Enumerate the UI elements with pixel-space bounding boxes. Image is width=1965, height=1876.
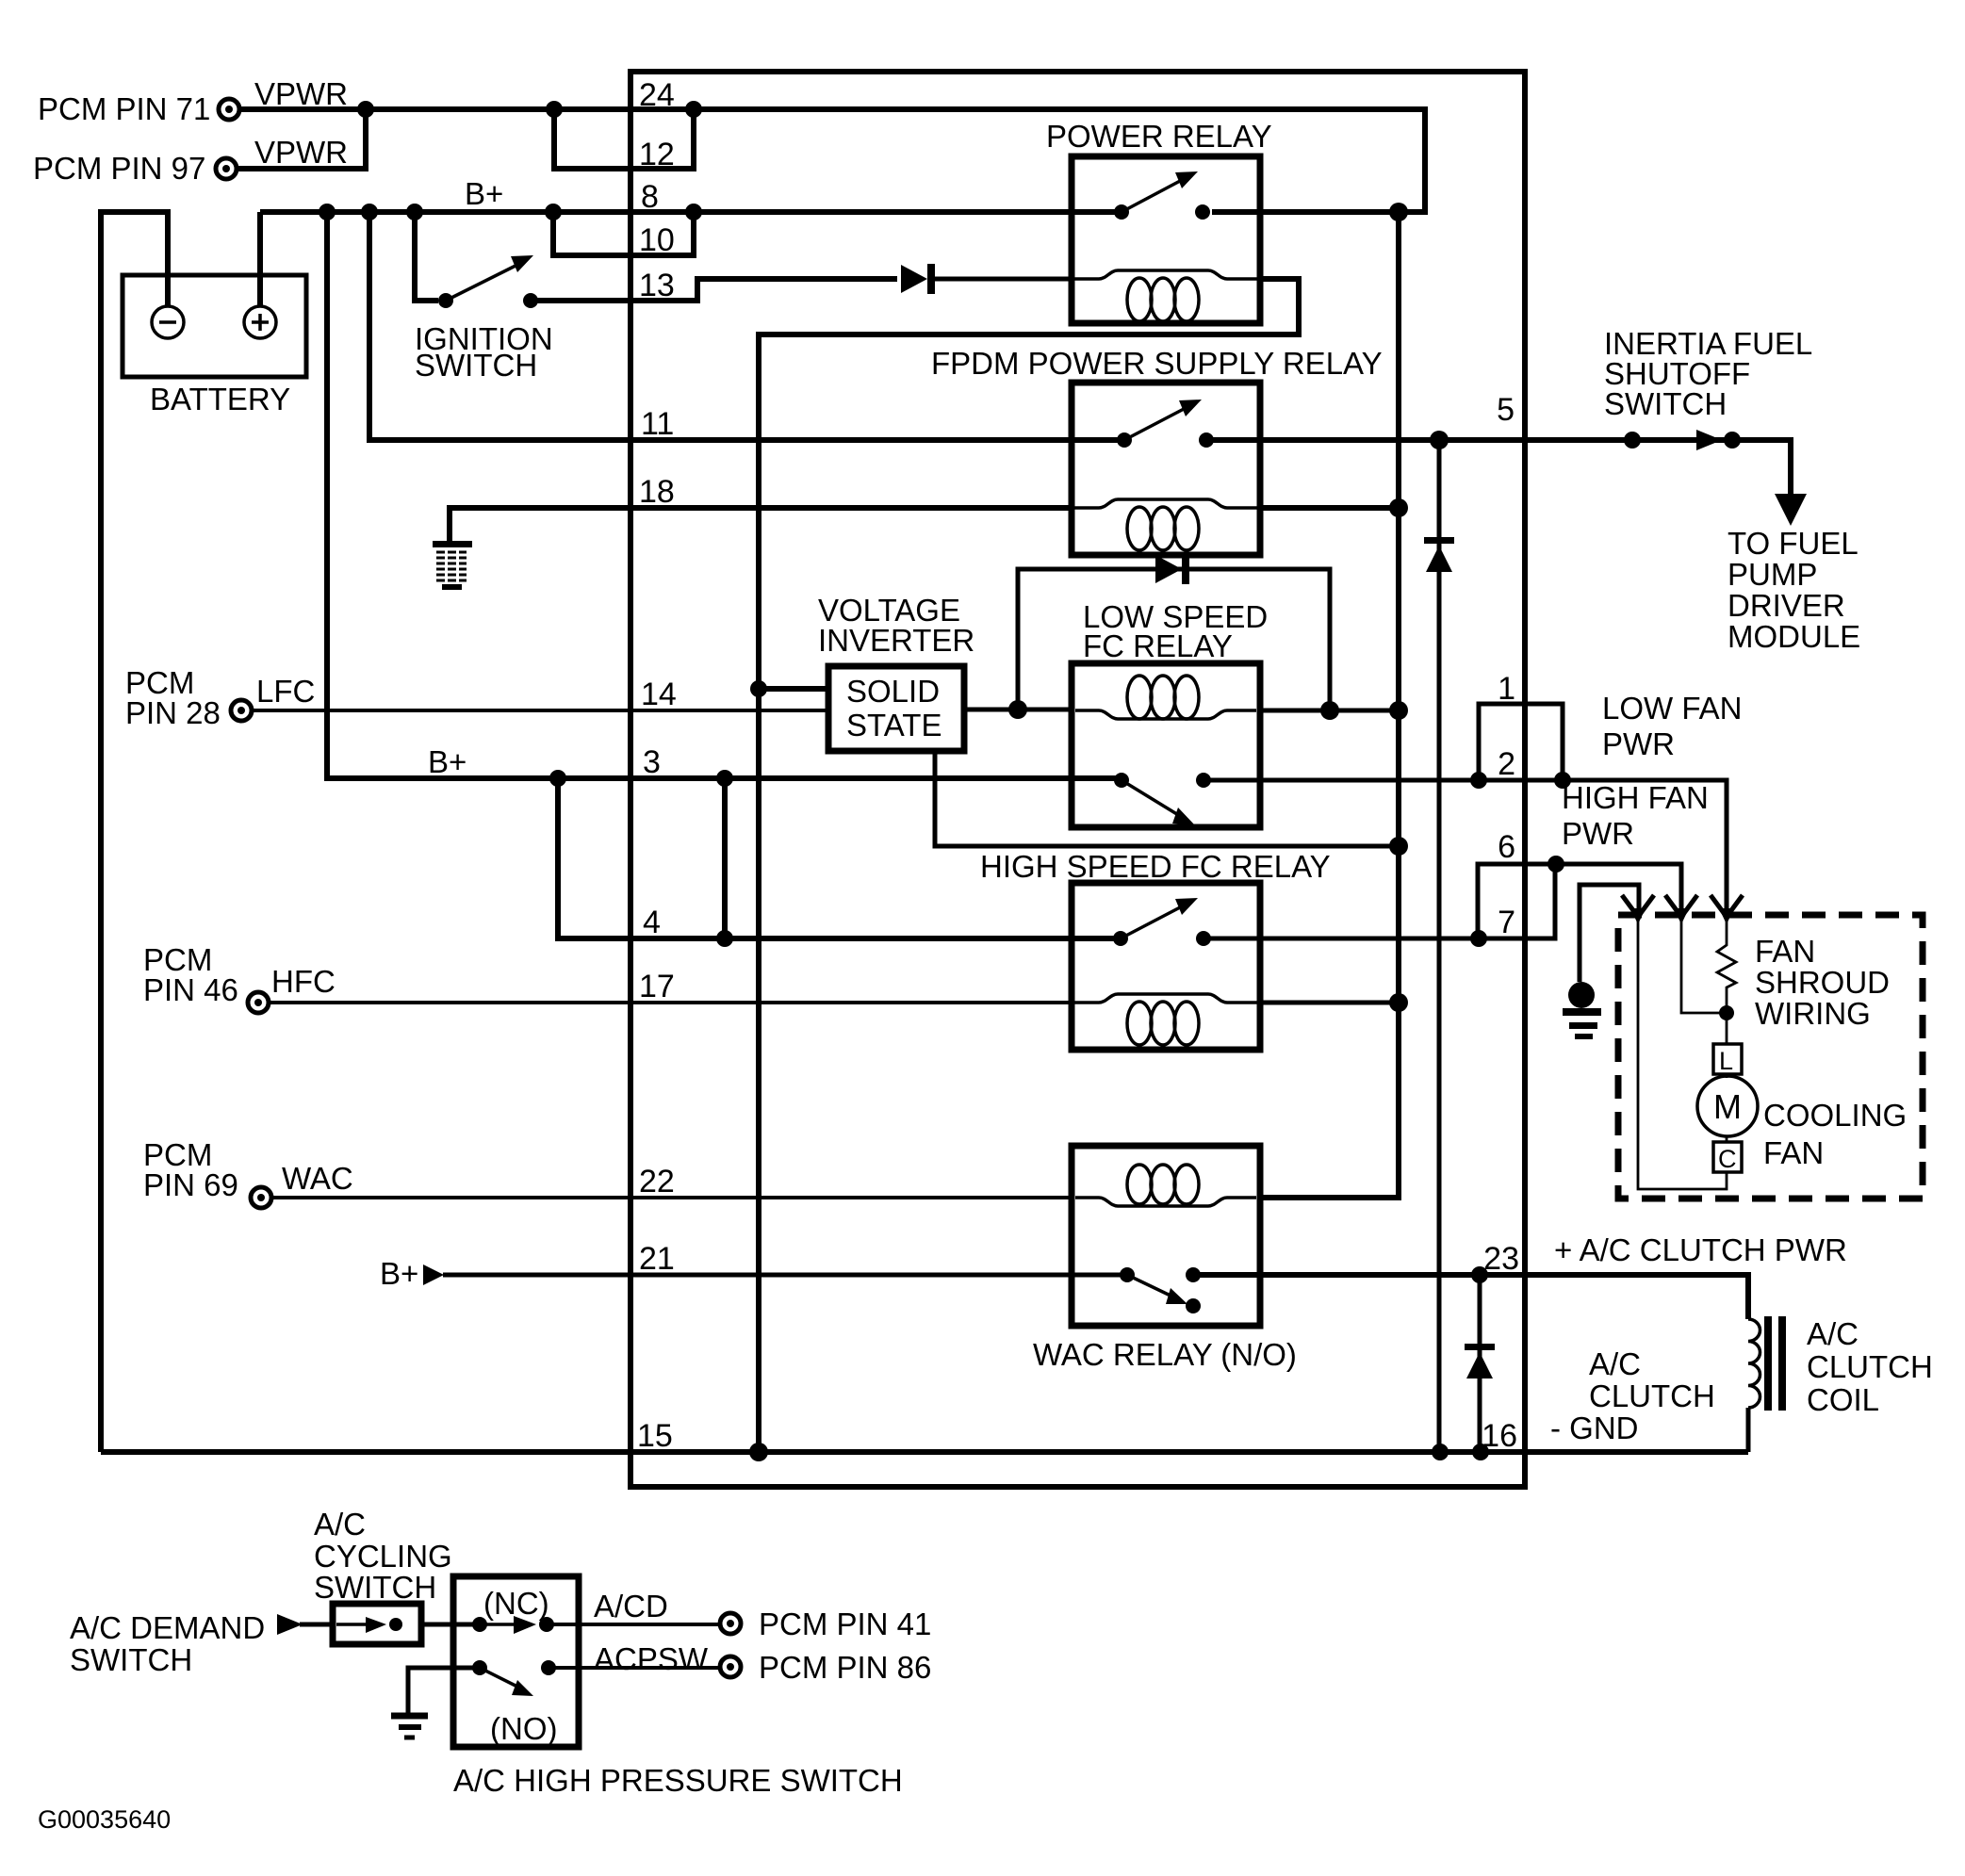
resistor: fan shroud dropping resistor: [1717, 920, 1736, 1010]
ground: hatched ground for wire 18: [433, 541, 472, 590]
wire: cycling switch to high pressure switch: [421, 1623, 480, 1627]
svg-text:17: 17: [639, 969, 675, 1004]
pin terminal PCM PIN 69: [251, 1187, 271, 1208]
arrow: B+ source for wire 21: [423, 1264, 444, 1285]
wire: A/C demand to cycling switch: [300, 1623, 333, 1627]
svg-text:FAN: FAN: [1763, 1135, 1824, 1170]
svg-text:(NO): (NO): [490, 1711, 557, 1746]
wire 22: WAC from PCM PIN 69 to WAC relay coil: [271, 1196, 1072, 1199]
svg-text:FC RELAY: FC RELAY: [1083, 628, 1233, 663]
svg-text:PCM PIN 41: PCM PIN 41: [759, 1607, 931, 1641]
relay: POWER RELAY: [1072, 156, 1260, 323]
svg-text:BATTERY: BATTERY: [150, 382, 290, 416]
svg-text:PIN 46: PIN 46: [143, 972, 238, 1007]
svg-text:CLUTCH: CLUTCH: [1589, 1378, 1715, 1413]
svg-text:11: 11: [641, 406, 674, 442]
svg-text:DRIVER: DRIVER: [1728, 588, 1845, 623]
svg-text:STATE: STATE: [846, 708, 942, 742]
node: bypass diode left junction: [1008, 700, 1027, 719]
wire: ACPSW to PCM PIN 86: [549, 1666, 720, 1670]
arrow: to fuel pump driver module: [1775, 494, 1807, 526]
svg-text:SWITCH: SWITCH: [415, 348, 537, 383]
svg-text:- GND: - GND: [1550, 1411, 1639, 1445]
svg-text:13: 13: [639, 268, 675, 303]
wire: solid state bottom feed to B+ bus: [935, 751, 1399, 846]
svg-text:WAC: WAC: [282, 1161, 353, 1196]
svg-text:A/C: A/C: [1589, 1346, 1641, 1381]
relay: HIGH SPEED FC RELAY: [1072, 883, 1260, 1050]
wire 8: B+ rail from battery to power relay: [260, 209, 1122, 215]
svg-text:HIGH FAN: HIGH FAN: [1562, 780, 1709, 815]
svg-text:PIN 28: PIN 28: [125, 695, 221, 730]
wire 3: B+ drop to low speed relay contact: [327, 212, 1122, 778]
diode: A/C clutch flyback: [1465, 1344, 1495, 1378]
wire 24: VPWR from PCM PIN 71 to power relay contact: [239, 109, 1425, 212]
svg-text:16: 16: [1482, 1418, 1517, 1454]
bottom section: A/C demand switch arrow: [277, 1614, 303, 1635]
relay: FPDM POWER SUPPLY RELAY: [1072, 383, 1260, 555]
svg-text:8: 8: [641, 179, 659, 215]
svg-text:A/CD: A/CD: [594, 1589, 668, 1623]
svg-text:POWER RELAY: POWER RELAY: [1046, 119, 1272, 154]
wire 23: WAC relay output to A/C clutch power: [1193, 1275, 1748, 1319]
pin terminal PCM PIN 97: [216, 158, 237, 179]
svg-text:7: 7: [1498, 905, 1515, 940]
svg-text:TO FUEL: TO FUEL: [1728, 526, 1859, 561]
wire 10: loop joining pin 10 to pin 8: [553, 212, 694, 255]
svg-text:22: 22: [639, 1164, 675, 1199]
wire 4: B+ branch to high speed relay contact: [558, 778, 1121, 938]
wire 18: FPDM coil to chassis ground: [450, 508, 1072, 542]
wire: FPDM coil return to B+ bus: [1260, 505, 1399, 511]
wire 6: pin 6 to high fan power: [1478, 864, 1681, 938]
svg-text:A/C: A/C: [1807, 1316, 1859, 1351]
ground: A/C high pressure switch ground: [391, 1716, 428, 1737]
svg-text:PIN 69: PIN 69: [143, 1167, 238, 1202]
svg-text:B+: B+: [465, 176, 503, 211]
node: junctions on B+ rail: [319, 204, 336, 220]
svg-text:LOW FAN: LOW FAN: [1602, 691, 1743, 726]
svg-text:SWITCH: SWITCH: [70, 1642, 192, 1677]
wire 5: FPDM output to inertia fuel shutoff switch: [1206, 440, 1791, 494]
svg-text:CLUTCH: CLUTCH: [1807, 1349, 1933, 1384]
svg-text:FAN: FAN: [1755, 934, 1815, 969]
svg-text:14: 14: [641, 677, 677, 712]
svg-text:1: 1: [1498, 671, 1515, 707]
wire: LS relay coil return to B+ bus: [1260, 709, 1399, 713]
svg-text:6: 6: [1498, 829, 1515, 865]
svg-text:PCM PIN 86: PCM PIN 86: [759, 1650, 931, 1685]
ignition switch: [438, 255, 538, 308]
wire 7: HS relay output to pin 7: [1206, 864, 1555, 938]
diode: on branch from wire 5: [1424, 537, 1454, 572]
pin terminal PCM PIN 41: [720, 1613, 741, 1634]
pin terminal PCM PIN 28: [231, 700, 252, 721]
wire: B+ drop to ignition switch: [415, 212, 438, 301]
relay: WAC RELAY (N/O): [1072, 1146, 1260, 1326]
wire: solid state feed stub from relay return line: [759, 686, 828, 692]
svg-text:HFC: HFC: [271, 964, 336, 999]
svg-text:12: 12: [639, 137, 675, 172]
svg-text:MODULE: MODULE: [1728, 619, 1860, 654]
svg-text:INVERTER: INVERTER: [818, 623, 974, 658]
svg-text:4: 4: [643, 905, 661, 940]
svg-text:PCM PIN 71: PCM PIN 71: [38, 91, 210, 126]
svg-text:PUMP: PUMP: [1728, 557, 1817, 592]
svg-text:PCM PIN 97: PCM PIN 97: [33, 151, 205, 186]
svg-text:5: 5: [1497, 392, 1515, 428]
fan shroud dashed box: [1618, 915, 1923, 1199]
wire: fan motor leads: [1638, 920, 1727, 1189]
pin terminal PCM PIN 46: [248, 992, 269, 1013]
wire: left ground rail from battery minus to pin 15 wire: [101, 212, 168, 1452]
svg-text:PWR: PWR: [1562, 816, 1634, 851]
svg-text:+ A/C CLUTCH PWR: + A/C CLUTCH PWR: [1554, 1232, 1847, 1267]
wire 1: loop joining pin 1 to pin 2: [1479, 704, 1563, 780]
svg-text:WAC RELAY (N/O): WAC RELAY (N/O): [1033, 1337, 1297, 1372]
wire: high fan feed inside shroud: [1681, 920, 1727, 1013]
svg-text:SWITCH: SWITCH: [314, 1570, 436, 1605]
wire 2: LS relay output to low fan power: [1206, 780, 1727, 916]
wire: HS relay coil return to B+ bus: [1260, 1001, 1399, 1005]
wire 15: ground wire along bottom to A/C clutch ground: [101, 1449, 1748, 1455]
diode: LS relay coil bypass: [1155, 554, 1189, 584]
svg-text:SWITCH: SWITCH: [1604, 386, 1727, 421]
svg-text:G00035640: G00035640: [38, 1805, 171, 1834]
svg-text:SHROUD: SHROUD: [1755, 965, 1890, 1000]
A/C cycling switch: [333, 1604, 421, 1644]
A/C high pressure switch: [453, 1576, 579, 1747]
connector box (PCM harness connector outline): [630, 72, 1525, 1487]
svg-text:(NC): (NC): [483, 1586, 549, 1621]
wire 17: HFC from PCM PIN 46 to HS relay coil: [269, 1001, 1072, 1004]
svg-text:23: 23: [1483, 1241, 1519, 1277]
wire: clutch flyback diode branch: [1478, 1275, 1482, 1452]
svg-text:FPDM POWER SUPPLY RELAY: FPDM POWER SUPPLY RELAY: [931, 346, 1383, 381]
svg-text:L: L: [1719, 1047, 1733, 1075]
svg-text:18: 18: [639, 474, 675, 510]
svg-text:WIRING: WIRING: [1755, 996, 1871, 1031]
wire 11: B+ drop to FPDM relay contact: [369, 212, 1124, 440]
svg-text:COOLING: COOLING: [1763, 1098, 1907, 1133]
relay: LOW SPEED FC RELAY: [1072, 663, 1260, 827]
pin terminal PCM PIN 86: [720, 1656, 741, 1677]
wire: solid state output to low speed FC relay coil: [964, 708, 1072, 712]
svg-text:B+: B+: [428, 744, 467, 779]
svg-text:VPWR: VPWR: [254, 76, 348, 111]
diode: on wire 13: [901, 264, 935, 294]
wire: power relay coil return to ground rail: [759, 279, 1299, 1452]
svg-text:ACPSW: ACPSW: [594, 1641, 709, 1676]
wire 13: ignition switch to power relay coil: [531, 279, 897, 301]
inertia fuel shutoff switch: [1624, 430, 1741, 450]
svg-text:COIL: COIL: [1807, 1382, 1879, 1417]
svg-text:3: 3: [643, 744, 661, 780]
svg-text:A/C: A/C: [314, 1507, 366, 1542]
pin terminal PCM PIN 71: [219, 99, 239, 120]
svg-text:A/C DEMAND: A/C DEMAND: [70, 1610, 265, 1645]
svg-text:SOLID: SOLID: [846, 674, 940, 709]
svg-text:PWR: PWR: [1602, 726, 1675, 761]
wire 14: LFC from PCM PIN 28 to voltage inverter: [252, 709, 828, 712]
svg-text:10: 10: [639, 222, 675, 258]
svg-text:21: 21: [639, 1241, 675, 1277]
svg-text:24: 24: [639, 77, 675, 113]
battery BATTERY: [123, 275, 306, 377]
node: junction power relay output to B+ bus: [1389, 203, 1408, 221]
svg-text:CYCLING: CYCLING: [314, 1539, 452, 1574]
wire 12: loop joining pin 12 to pin 24: [554, 109, 694, 169]
svg-text:HIGH SPEED FC RELAY: HIGH SPEED FC RELAY: [980, 849, 1331, 884]
svg-text:15: 15: [637, 1418, 673, 1454]
voltage inverter U1 SOLID STATE: [828, 666, 964, 751]
ground: fan ground (ball type): [1563, 982, 1601, 1039]
wire: VPWR from PCM PIN 97 up to pin 71 wire: [237, 109, 366, 169]
wire: battery plus riser to B+ rail: [257, 212, 263, 306]
connector arrows into fan shroud: [1622, 895, 1743, 924]
svg-text:M: M: [1713, 1087, 1742, 1126]
svg-text:A/C HIGH PRESSURE SWITCH: A/C HIGH PRESSURE SWITCH: [453, 1763, 903, 1798]
svg-text:C: C: [1718, 1145, 1737, 1173]
wire: ground lead for fan: [1580, 885, 1639, 982]
wire: diode branch from wire 5 to ground wire: [1437, 440, 1442, 1452]
motor: COOLING FAN M: [1697, 1044, 1758, 1172]
wire: A/CD to PCM PIN 41: [547, 1623, 720, 1626]
wire: diode bypass around LS relay coil: [1018, 569, 1330, 710]
wire 21: B+ feed to WAC relay switch: [443, 1273, 1127, 1278]
svg-text:B+: B+: [380, 1256, 418, 1291]
svg-text:LFC: LFC: [256, 674, 315, 709]
wire: NO contact to ground: [408, 1668, 480, 1713]
svg-text:VPWR: VPWR: [254, 135, 348, 170]
inductor: A/C CLUTCH COIL: [1748, 1316, 1786, 1452]
svg-text:2: 2: [1498, 746, 1515, 782]
node: junctions on wire 24: [357, 101, 374, 118]
wire: B+ bus vertical feeding relay coils: [1260, 212, 1399, 1198]
